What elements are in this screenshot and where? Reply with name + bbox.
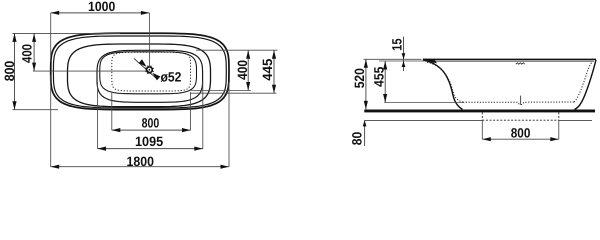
side: plinth hidden dashed right [558,112,560,120]
side: rim second line [425,60,594,62]
side: plinth hidden dashed left [481,112,483,120]
side: floor line [364,119,482,121]
dim 520 [365,59,367,109]
dim 1800 [50,75,52,167]
svg-text:15: 15 [389,38,404,51]
side: left edge curve [423,60,462,109]
side: inner surface dotted left [427,62,463,102]
basin opening (plan) [97,50,203,102]
dim 800 side [481,120,483,139]
dim 800 left [13,109,59,111]
dim 400 left [13,32,121,34]
side: inner bottom dotted [463,102,574,105]
basin lower edge (plan) [100,52,197,94]
svg-text:400: 400 [235,60,250,80]
svg-text:445: 445 [260,58,275,81]
side: inner surface dotted right [574,62,593,103]
drain leader diagonal [134,59,157,80]
svg-text:800: 800 [2,61,17,82]
basin floor dotted rect (plan) [112,52,191,91]
side: deck thick line [364,110,595,113]
svg-text:1800: 1800 [127,154,155,169]
tub outer rim inner line (plan) [53,36,226,108]
dim 445 right [190,92,277,94]
side: rim tip wedge [423,59,437,63]
svg-text:400: 400 [20,44,35,63]
tub outer rim (plan) [51,33,229,109]
svg-text:520: 520 [352,68,367,88]
svg-text:ø52: ø52 [161,69,182,84]
svg-text:800: 800 [142,116,160,131]
side: drain tick [520,96,522,105]
svg-text:80: 80 [350,132,365,146]
side: right edge [575,60,597,110]
drain gear teeth [153,70,154,73]
dim 1000 top [50,13,52,62]
svg-text:1095: 1095 [135,134,164,149]
dim 15 [364,58,422,60]
dim 400 right [196,49,278,51]
rim inner edge (plan) [68,44,211,107]
dim 80 [364,120,366,146]
side: rim top line [423,58,596,60]
svg-text:800: 800 [511,126,531,141]
dim 455 [384,102,463,104]
side: plinth hidden dashed bottom [482,119,559,121]
svg-text:1000: 1000 [88,0,115,14]
side: overflow zigzag [516,63,525,64]
svg-text:455: 455 [371,66,386,87]
dim 1095 [97,82,99,149]
dim 800 plan bottom [111,92,113,130]
